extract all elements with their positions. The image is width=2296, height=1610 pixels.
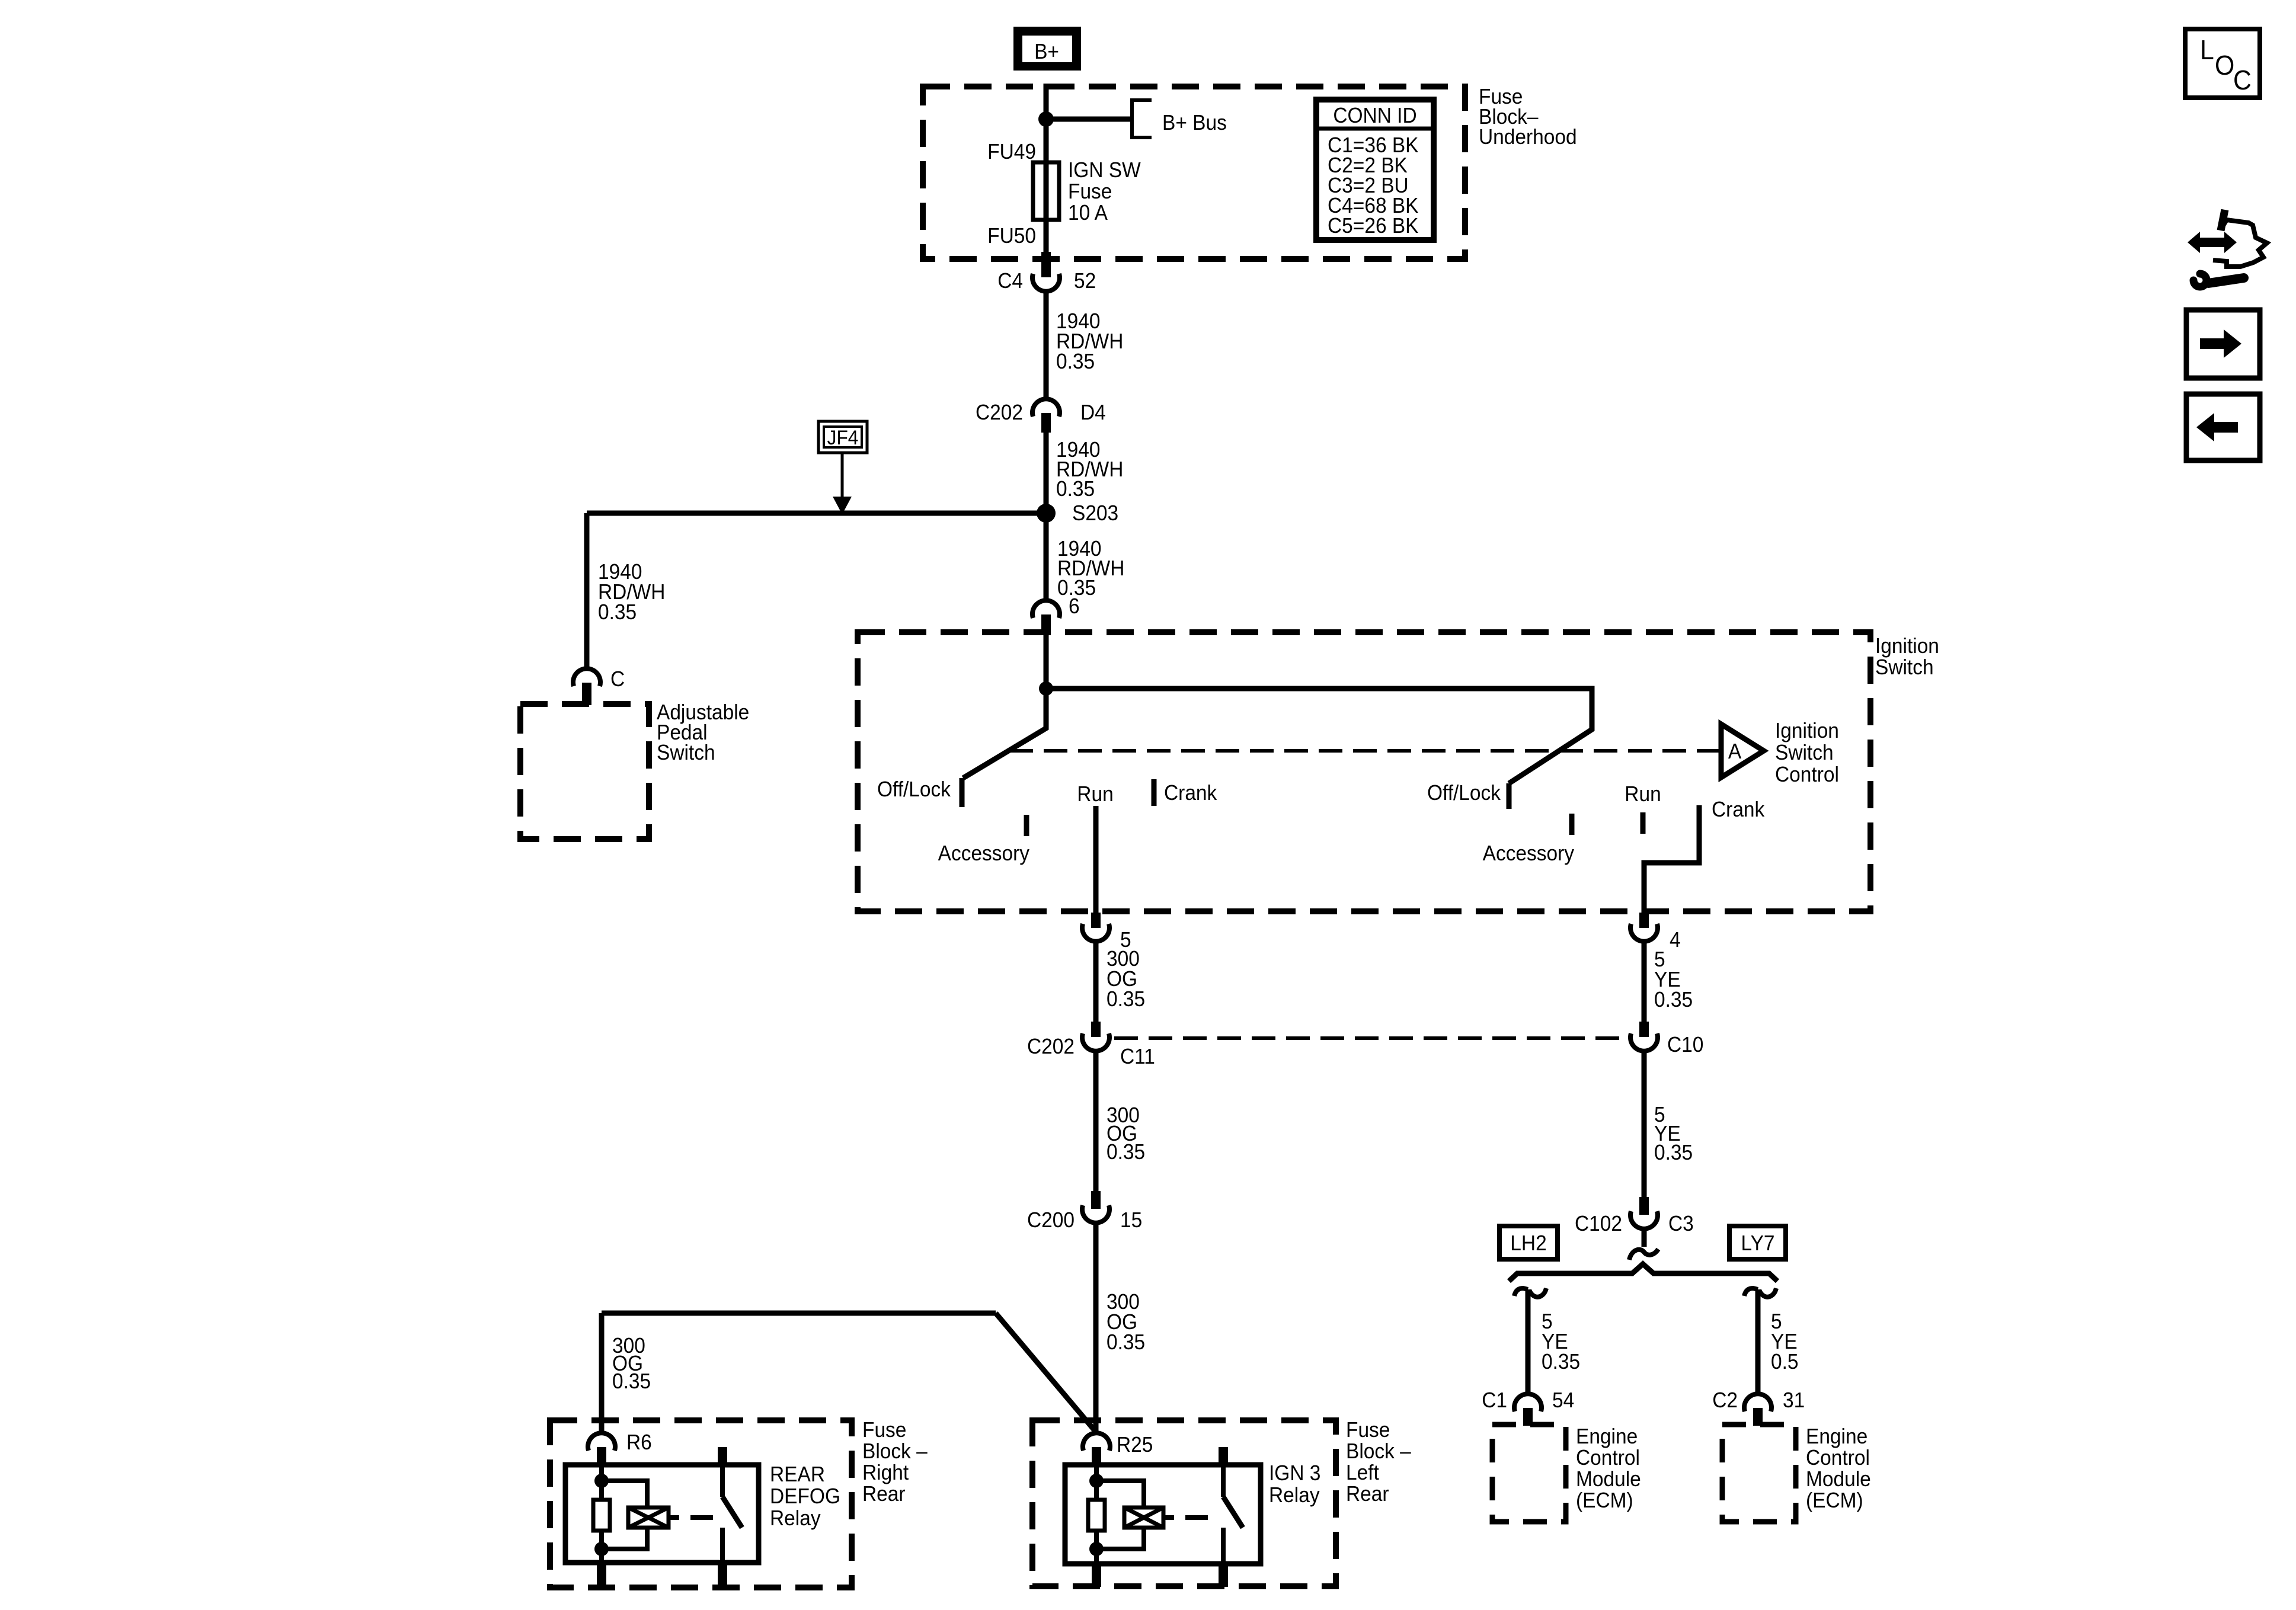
svg-text:C10: C10 <box>1667 1033 1703 1057</box>
svg-text:FU49: FU49 <box>987 140 1036 164</box>
svg-text:15: 15 <box>1120 1209 1142 1232</box>
svg-text:4: 4 <box>1670 929 1681 952</box>
svg-text:L: L <box>2200 36 2214 66</box>
svg-text:C: C <box>2233 66 2252 96</box>
svg-text:Module: Module <box>1806 1468 1871 1491</box>
svg-text:0.35: 0.35 <box>1056 478 1095 501</box>
svg-text:Crank: Crank <box>1712 798 1765 821</box>
svg-text:Fuse: Fuse <box>1068 180 1112 203</box>
svg-text:Switch: Switch <box>1775 741 1834 764</box>
svg-text:0.35: 0.35 <box>1107 988 1145 1011</box>
svg-text:LH2: LH2 <box>1510 1232 1546 1255</box>
svg-text:Ignition: Ignition <box>1775 719 1839 742</box>
svg-text:LY7: LY7 <box>1741 1232 1774 1255</box>
svg-text:R6: R6 <box>626 1431 652 1454</box>
svg-text:S203: S203 <box>1072 502 1118 525</box>
svg-text:IGN SW: IGN SW <box>1068 159 1141 182</box>
svg-text:Off/Lock: Off/Lock <box>877 778 951 801</box>
svg-text:B+ Bus: B+ Bus <box>1162 111 1227 135</box>
svg-text:B+: B+ <box>1034 40 1059 63</box>
svg-text:IGN 3: IGN 3 <box>1269 1462 1320 1485</box>
svg-text:0.35: 0.35 <box>1107 1331 1145 1354</box>
svg-text:Engine: Engine <box>1576 1425 1638 1448</box>
svg-text:Right: Right <box>862 1461 909 1484</box>
svg-text:A: A <box>1728 740 1742 763</box>
svg-text:6: 6 <box>1069 595 1080 618</box>
svg-text:C102: C102 <box>1575 1212 1622 1235</box>
svg-text:C202: C202 <box>976 401 1023 424</box>
svg-text:Run: Run <box>1625 783 1661 806</box>
svg-text:C4: C4 <box>997 270 1023 293</box>
svg-text:Control: Control <box>1775 763 1839 786</box>
svg-text:Control: Control <box>1576 1446 1640 1470</box>
svg-text:D4: D4 <box>1080 401 1106 424</box>
svg-text:Left: Left <box>1346 1461 1379 1484</box>
svg-text:Switch: Switch <box>657 741 715 764</box>
svg-text:Off/Lock: Off/Lock <box>1427 782 1501 805</box>
svg-text:R25: R25 <box>1117 1433 1153 1457</box>
svg-text:DEFOG: DEFOG <box>770 1485 840 1508</box>
svg-text:Run: Run <box>1077 783 1113 806</box>
svg-text:Relay: Relay <box>1269 1484 1320 1507</box>
svg-text:Switch: Switch <box>1875 656 1934 679</box>
svg-text:31: 31 <box>1783 1389 1805 1412</box>
svg-text:10 A: 10 A <box>1068 201 1108 225</box>
svg-text:Relay: Relay <box>770 1507 821 1530</box>
svg-text:Underhood: Underhood <box>1479 126 1577 149</box>
svg-text:0.35: 0.35 <box>1056 350 1095 373</box>
svg-text:Engine: Engine <box>1806 1425 1868 1448</box>
svg-text:Accessory: Accessory <box>938 842 1030 865</box>
svg-text:Block –: Block – <box>1346 1440 1411 1463</box>
svg-text:0.35: 0.35 <box>1542 1350 1580 1374</box>
svg-text:Control: Control <box>1806 1446 1870 1470</box>
svg-text:C: C <box>610 668 625 691</box>
svg-text:Ignition: Ignition <box>1875 635 1939 658</box>
svg-text:0.5: 0.5 <box>1771 1350 1799 1374</box>
svg-text:Module: Module <box>1576 1468 1641 1491</box>
svg-text:Block –: Block – <box>862 1440 928 1463</box>
svg-text:Rear: Rear <box>1346 1483 1389 1506</box>
svg-text:Crank: Crank <box>1164 782 1217 805</box>
svg-text:54: 54 <box>1552 1389 1574 1412</box>
svg-text:Accessory: Accessory <box>1483 842 1575 865</box>
svg-text:Fuse: Fuse <box>1346 1419 1390 1442</box>
svg-text:0.35: 0.35 <box>1654 988 1693 1012</box>
svg-text:C5=26 BK: C5=26 BK <box>1328 215 1419 238</box>
svg-text:Fuse: Fuse <box>862 1419 906 1442</box>
svg-text:FU50: FU50 <box>987 225 1036 248</box>
svg-text:C2: C2 <box>1712 1389 1738 1412</box>
svg-text:52: 52 <box>1074 270 1096 293</box>
svg-text:(ECM): (ECM) <box>1806 1489 1863 1512</box>
svg-text:0.35: 0.35 <box>1107 1141 1145 1164</box>
svg-text:C200: C200 <box>1027 1209 1075 1232</box>
svg-text:C3: C3 <box>1668 1212 1694 1235</box>
svg-text:O: O <box>2215 51 2234 81</box>
svg-text:(ECM): (ECM) <box>1576 1489 1633 1512</box>
svg-text:REAR: REAR <box>770 1463 825 1486</box>
svg-text:JF4: JF4 <box>827 426 859 449</box>
svg-text:CONN ID: CONN ID <box>1333 104 1416 127</box>
svg-text:0.35: 0.35 <box>598 601 637 624</box>
svg-text:Rear: Rear <box>862 1483 906 1506</box>
svg-text:C1: C1 <box>1482 1389 1507 1412</box>
svg-text:0.35: 0.35 <box>612 1370 651 1393</box>
svg-text:0.35: 0.35 <box>1654 1141 1693 1164</box>
svg-text:C11: C11 <box>1120 1045 1155 1068</box>
svg-text:C202: C202 <box>1027 1035 1075 1058</box>
